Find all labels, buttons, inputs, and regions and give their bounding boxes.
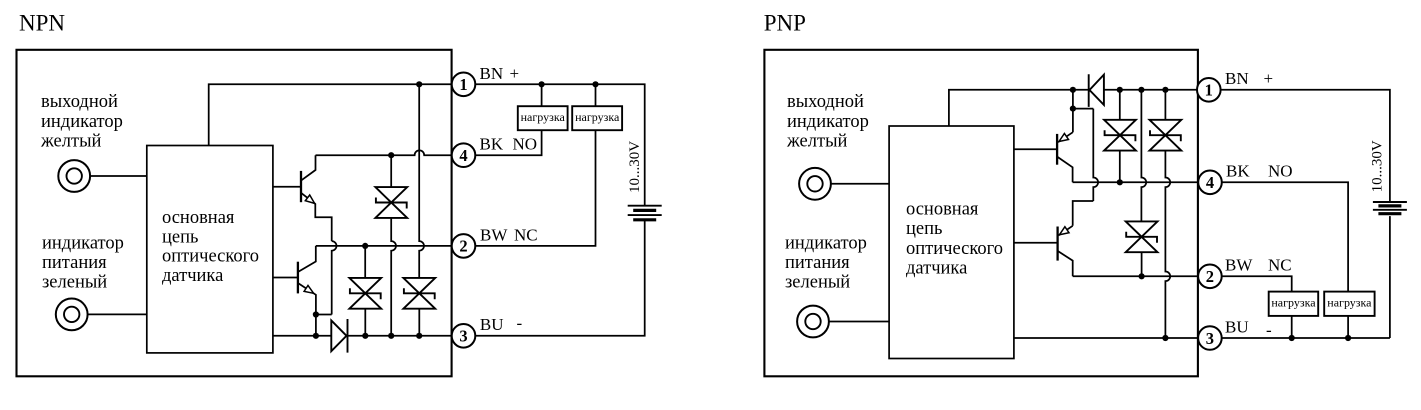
label: основная цепь оптического датчика (PNP) (906, 199, 1003, 278)
svg-text:1: 1 (1205, 81, 1213, 100)
wire minus rail (NPN) (348, 335, 453, 337)
svg-text:4: 4 (459, 146, 467, 165)
wire battery bottom (PNP) (1389, 216, 1391, 338)
svg-text:датчика: датчика (906, 259, 967, 279)
load box 2 (NPN) (572, 106, 622, 130)
label: индикатор питания зеленый (NPN) (42, 233, 124, 292)
svg-text:+: + (510, 64, 520, 83)
svg-text:выходной: выходной (41, 92, 118, 112)
wire NC rail (PNP) (1073, 275, 1198, 277)
svg-text:PNP: PNP (764, 11, 806, 36)
wire TVS1 top lead (NPN) (390, 155, 392, 187)
TVS diode VD3 (NPN) (403, 278, 435, 309)
svg-text:датчика: датчика (162, 266, 223, 286)
junction Q3 emitter at BN (PNP) (1070, 87, 1076, 93)
junction load2 top (NPN) (592, 81, 598, 87)
svg-text:-: - (1266, 320, 1272, 339)
wire LED1 to U1 (NPN) (90, 175, 147, 177)
transistor Q1 bar (NPN) (300, 171, 302, 202)
wire load2 to minus (PNP) (1347, 316, 1349, 338)
svg-text:питания: питания (42, 253, 107, 273)
transistor Q3 emitter arrow (PNP) (1059, 134, 1069, 142)
sensor body box (PNP) (764, 50, 1198, 377)
wire U2 top to BN rail (PNP) (949, 90, 1089, 126)
terminal 2 (NPN) (452, 234, 476, 258)
wire TVS3 lead from BN with hop (NPN) (419, 84, 424, 278)
wire BN to battery (NPN) (475, 84, 644, 205)
transistor Q1 emitter (NPN) (301, 193, 332, 241)
main circuit box U1 (NPN) (147, 146, 273, 353)
svg-text:NC: NC (514, 226, 538, 245)
svg-text:3: 3 (459, 327, 467, 346)
svg-text:BN: BN (1225, 69, 1249, 88)
transistor Q1 emitter arrow (NPN) (305, 195, 314, 203)
svg-text:4: 4 (1206, 173, 1214, 192)
wire TVS6 top lead with hop (PNP) (1141, 90, 1146, 222)
wire BN to battery (PNP) (1221, 90, 1390, 202)
wire TVS5 top lead (PNP) (1164, 90, 1166, 120)
wire U1 to diode D1 (NPN) (273, 335, 331, 337)
TVS diode VD5 (PNP) (1150, 120, 1182, 151)
TVS diode VD2 (NPN) (349, 278, 381, 309)
junction TVS4 top (PNP) (1117, 87, 1123, 93)
svg-text:оптического: оптического (906, 239, 1003, 259)
junction load2 bottom (PNP) (1345, 335, 1351, 341)
LED indicator yellow (NPN) (58, 160, 90, 192)
svg-text:цепь: цепь (906, 219, 942, 239)
battery G1 (NPN) (628, 205, 662, 207)
terminal 4 (PNP) (1198, 171, 1222, 195)
svg-text:индикатор: индикатор (41, 112, 123, 132)
terminal 1 (PNP) (1197, 78, 1221, 102)
junction TVS1 bottom (NPN) (388, 333, 394, 339)
wire TVS4 bottom lead (PNP) (1119, 151, 1121, 183)
wire TVS2 top lead (NPN) (364, 246, 366, 278)
main circuit box U2 (PNP) (889, 126, 1014, 359)
transistor Q2 emitter arrow (NPN) (304, 285, 314, 293)
terminal 2 (PNP) (1198, 265, 1222, 289)
svg-text:основная: основная (906, 199, 979, 219)
junction TVS6 top (PNP) (1138, 87, 1144, 93)
diode D1 (NPN) (331, 319, 347, 353)
svg-text:зеленый: зеленый (785, 272, 850, 292)
transistor Q4 base wire (PNP) (1014, 242, 1058, 244)
sensor body box (NPN) (17, 50, 452, 377)
svg-text:NC: NC (1268, 256, 1292, 275)
svg-text:цепь: цепь (162, 227, 198, 247)
junction TVS2 top (NPN) (362, 243, 368, 249)
svg-text:3: 3 (1206, 329, 1214, 348)
svg-text:2: 2 (1206, 267, 1214, 286)
svg-text:2: 2 (459, 237, 467, 256)
svg-text:индикатор: индикатор (785, 233, 867, 253)
junction TVS6 bottom (PNP) (1139, 273, 1145, 279)
transistor Q3 emitter (PNP) (1058, 132, 1073, 142)
TVS diode VD6 (PNP) (1126, 221, 1158, 252)
wire load1 to minus (PNP) (1291, 316, 1293, 338)
wire TVS4 top lead (PNP) (1119, 90, 1121, 120)
svg-text:выходной: выходной (787, 92, 864, 112)
wire U1 top to BN rail (NPN) (209, 84, 452, 145)
wire emitter link to Q4 (PNP) (1073, 201, 1094, 226)
svg-text:желтый: желтый (786, 132, 847, 152)
junction TVS5 top (PNP) (1162, 87, 1168, 93)
svg-text:нагрузка: нагрузка (521, 110, 566, 124)
svg-text:оптического: оптического (162, 247, 259, 267)
junction load1 top (NPN) (539, 81, 545, 87)
load box 1 (PNP) (1269, 292, 1319, 316)
wire LED1 to U2 (PNP) (831, 183, 889, 185)
wire NC to load2 (NPN) (475, 130, 595, 246)
junction load1 bottom (PNP) (1289, 335, 1295, 341)
label: выходной индикатор желтый (PNP) (786, 92, 869, 152)
wire TVS5 leads with hops (PNP) (1165, 151, 1170, 338)
transistor Q4 emitter (PNP) (1059, 226, 1073, 236)
svg-text:NPN: NPN (19, 11, 65, 36)
svg-text:-: - (517, 314, 523, 333)
terminal 4 (NPN) (452, 143, 476, 167)
wire minus to battery (PNP) (1222, 337, 1390, 339)
svg-text:BU: BU (1225, 317, 1249, 336)
junction TVS5 bottom (PNP) (1162, 335, 1168, 341)
wire LED2 to U1 (NPN) (88, 313, 147, 315)
svg-text:BK: BK (1226, 162, 1250, 181)
svg-text:BW: BW (1225, 256, 1253, 275)
svg-text:индикатор: индикатор (787, 112, 869, 132)
svg-text:нагрузка: нагрузка (575, 110, 620, 124)
transistor Q2 collector (NPN) (298, 246, 316, 272)
wire minus to battery (NPN) (475, 220, 644, 336)
transistor Q4 emitter arrow (PNP) (1060, 227, 1070, 235)
transistor Q3 collector (PNP) (1057, 157, 1073, 183)
wire TVS6 bottom lead (PNP) (1141, 252, 1143, 276)
wire TVS1 bottom lead with hop (NPN) (391, 218, 396, 336)
terminal 3 (NPN) (452, 324, 476, 348)
junction TVS2 bottom (NPN) (362, 333, 368, 339)
svg-text:желтый: желтый (40, 132, 101, 152)
junction emitter to minus rail (NPN) (313, 333, 319, 339)
svg-text:10...30V: 10...30V (1370, 140, 1386, 192)
terminal 1 (NPN) (452, 73, 476, 97)
wire NO rail with hop (NPN) (316, 150, 453, 155)
junction TVS3 bottom (NPN) (416, 333, 422, 339)
svg-text:+: + (1264, 69, 1274, 88)
transistor Q1 base wire (NPN) (273, 186, 301, 188)
svg-text:нагрузка: нагрузка (1327, 296, 1372, 310)
svg-text:NO: NO (1268, 162, 1293, 181)
load box 2 (PNP) (1324, 292, 1374, 316)
wire BN to load2 (NPN) (595, 84, 597, 106)
transistor Q2 base wire (NPN) (273, 277, 298, 279)
transistor Q4 collector (PNP) (1058, 251, 1073, 276)
wire NO rail (PNP) (1073, 181, 1198, 183)
wire emitter link down (PNP) (1093, 109, 1098, 201)
transistor Q3 bar (PNP) (1056, 134, 1058, 165)
junction TVS1 top (NPN) (388, 152, 394, 158)
wire emitter link branch (PNP) (1073, 108, 1093, 110)
svg-text:BK: BK (480, 134, 504, 153)
junction node on BN rail (NPN) (416, 81, 422, 87)
load box 1 (NPN) (518, 106, 568, 130)
label: основная цепь оптического датчика (NPN) (162, 208, 259, 286)
svg-text:NO: NO (513, 134, 538, 153)
wire BN to load1 (NPN) (541, 84, 543, 106)
junction emitter link node (PNP) (1070, 106, 1076, 112)
wire LED2 to U2 (PNP) (829, 321, 889, 323)
TVS diode VD4 (PNP) (1104, 120, 1136, 151)
junction emitters node (NPN) (313, 311, 319, 317)
transistor Q3 base wire (PNP) (1014, 148, 1057, 150)
svg-text:зеленый: зеленый (42, 272, 107, 292)
svg-text:индикатор: индикатор (42, 233, 124, 253)
diode D2 reverse protection (PNP) (1089, 74, 1104, 107)
transistor Q4 bar (PNP) (1056, 227, 1058, 261)
wire BN rail right of D2 (PNP) (1104, 89, 1198, 91)
wire TVS3 bottom lead (NPN) (418, 309, 420, 336)
svg-text:нагрузка: нагрузка (1271, 296, 1316, 310)
battery G2 (PNP) (1373, 201, 1407, 203)
junction TVS4 bottom (PNP) (1117, 179, 1123, 185)
wire Q1 emitter down with hop (NPN) (332, 241, 337, 314)
wire minus rail (PNP) (1014, 337, 1198, 339)
wire NC to load1 (PNP) (1222, 276, 1292, 291)
wire TVS2 bottom lead (NPN) (364, 309, 366, 336)
terminal 3 (PNP) (1198, 326, 1222, 350)
svg-text:10...30V: 10...30V (627, 141, 643, 193)
transistor Q2 bar (NPN) (297, 262, 299, 294)
label: выходной индикатор желтый (NPN) (40, 92, 123, 152)
TVS diode VD1 (NPN) (375, 187, 407, 218)
svg-text:BN: BN (480, 64, 504, 83)
wire emitter branch to node (NPN) (316, 314, 332, 316)
label: индикатор питания зеленый (PNP) (785, 233, 867, 292)
svg-text:питания: питания (785, 253, 850, 273)
transistor Q2 emitter (NPN) (298, 283, 316, 336)
LED indicator green (PNP) (797, 306, 829, 338)
svg-text:BW: BW (480, 226, 508, 245)
LED indicator yellow (PNP) (799, 168, 831, 200)
wire NC rail (NPN) (316, 245, 452, 247)
svg-text:1: 1 (459, 75, 467, 94)
svg-text:BU: BU (480, 315, 504, 334)
svg-text:основная: основная (162, 208, 235, 228)
wire NO to load2 (PNP) (1222, 182, 1348, 291)
wire Q3 emitter from BN (PNP) (1072, 90, 1074, 132)
transistor Q1 collector (NPN) (301, 155, 316, 180)
wire NO to load1 (NPN) (475, 130, 541, 155)
LED indicator green (NPN) (56, 299, 88, 331)
